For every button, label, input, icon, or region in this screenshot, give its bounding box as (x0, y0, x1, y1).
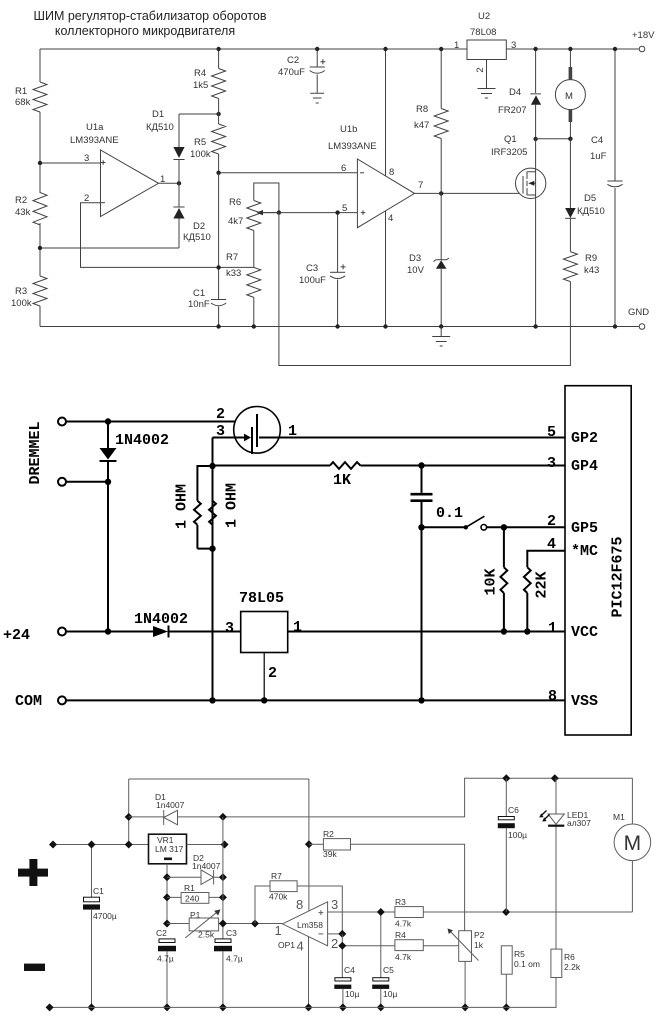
wire pin1 output (159, 182, 180, 184)
svg-text:КД510: КД510 (183, 232, 211, 243)
svg-text:C4: C4 (591, 135, 603, 146)
svg-text:78L08: 78L08 (470, 27, 496, 38)
svg-text:4.7µ: 4.7µ (157, 954, 174, 964)
svg-text:R3: R3 (15, 286, 27, 297)
svg-text:P2: P2 (474, 930, 485, 940)
diode D5 KD510 (569, 139, 571, 252)
regulator VR1 LM317 (149, 834, 187, 864)
resistor R3 100k (33, 276, 47, 306)
svg-text:LM393ANE: LM393ANE (328, 141, 377, 152)
wire bottom rail GND (40, 326, 639, 328)
svg-text:R7: R7 (271, 871, 282, 881)
op-amp OP1 Lm358 (282, 902, 327, 946)
wire input column up (128, 779, 130, 845)
MOSFET Q1 IRF3205 (516, 168, 546, 198)
svg-text:100µ: 100µ (508, 830, 527, 840)
svg-text:R4: R4 (395, 930, 406, 940)
wire drain to motor bottom (536, 138, 571, 140)
wire left column (39, 49, 41, 327)
resistor R2 39k (309, 843, 324, 845)
svg-text:1k: 1k (474, 940, 484, 950)
capacitor C3 4.7u (215, 939, 231, 943)
svg-text:Q1: Q1 (504, 134, 517, 145)
svg-text:КД510: КД510 (146, 122, 174, 133)
terminal DREMMEL A (58, 418, 66, 426)
resistor R3 4.7k (395, 907, 423, 918)
svg-text:10K: 10K (483, 568, 500, 595)
diode D4 FR207 (535, 49, 537, 139)
svg-text:4.7µ: 4.7µ (226, 954, 243, 964)
svg-text:1: 1 (454, 40, 459, 51)
diode D 1N4002 vertical (107, 422, 109, 632)
wire +24 row with diode 1N4002 (66, 631, 241, 633)
wire VR1 out (187, 844, 225, 846)
capacitor C4 10u (335, 978, 351, 981)
svg-text:2.2k: 2.2k (564, 962, 581, 972)
svg-text:100k: 100k (190, 149, 211, 160)
svg-text:4: 4 (388, 213, 393, 224)
resistor R9 k43 (563, 252, 577, 282)
svg-text:R6: R6 (229, 197, 241, 208)
svg-text:R1: R1 (15, 86, 27, 97)
svg-text:коллекторного микродвигателя: коллекторного микродвигателя (55, 24, 235, 38)
svg-text:M: M (565, 91, 573, 102)
svg-text:IRF3205: IRF3205 (491, 147, 527, 158)
resistor R1 240 (167, 896, 223, 898)
resistor 10K (503, 527, 505, 631)
capacitor 0.1 (421, 466, 423, 701)
wire bottom ground rail (50, 978, 556, 1008)
svg-text:R1: R1 (184, 883, 195, 893)
svg-text:1: 1 (548, 620, 557, 637)
svg-text:R4: R4 (194, 68, 206, 79)
wire D1 row to regulator output net (129, 778, 633, 817)
svg-text:0.1: 0.1 (436, 505, 463, 522)
resistor R6 2.2k (551, 949, 562, 977)
svg-text:D4: D4 (509, 87, 521, 98)
terminal +24 (58, 628, 66, 636)
potentiometer R6 4k7 (247, 201, 261, 231)
trimmer P2 1k (459, 931, 472, 962)
svg-text:2: 2 (331, 936, 338, 951)
op-amp U1b (357, 159, 414, 228)
svg-text:4.7k: 4.7k (395, 919, 412, 929)
wire pin8 to top rail (385, 49, 387, 176)
svg-text:0.1 om: 0.1 om (514, 959, 540, 969)
svg-text:1uF: 1uF (590, 151, 607, 162)
terminal GND (639, 324, 645, 330)
svg-text:D1: D1 (152, 109, 164, 120)
svg-text:4.7k: 4.7k (395, 952, 412, 962)
svg-text:10µ: 10µ (383, 989, 397, 999)
wire U2 pin2 + ground (486, 60, 488, 89)
svg-text:U1a: U1a (86, 122, 104, 133)
svg-text:R5: R5 (194, 137, 206, 148)
svg-text:1n4007: 1n4007 (192, 861, 221, 871)
svg-text:U2: U2 (478, 11, 490, 22)
svg-text:M1: M1 (613, 812, 625, 822)
svg-text:R3: R3 (395, 897, 406, 907)
svg-text:1K: 1K (333, 472, 351, 489)
wire VCC row (288, 631, 565, 633)
svg-text:470uF: 470uF (278, 67, 305, 78)
svg-text:2: 2 (475, 67, 486, 72)
svg-text:Lm358: Lm358 (297, 920, 323, 930)
svg-text:68k: 68k (15, 97, 31, 108)
svg-text:R9: R9 (585, 253, 597, 264)
svg-text:4700µ: 4700µ (93, 911, 117, 921)
wire dremmel top to mosfet source (66, 421, 257, 423)
wire pin2 row to R4 (342, 934, 395, 978)
wire R5 column down through C1 (218, 173, 220, 327)
capacitor C3 100uF (337, 213, 339, 327)
motor M (569, 49, 571, 139)
svg-text:C1: C1 (93, 886, 104, 896)
svg-text:78L05: 78L05 (239, 590, 284, 607)
wire GP4 row with resistor 1K (213, 465, 566, 467)
svg-text:3: 3 (84, 153, 89, 164)
wire pin5 row (258, 212, 358, 214)
svg-text:1 OHM: 1 OHM (224, 483, 241, 528)
svg-text:VCC: VCC (571, 624, 598, 641)
switch on GP5 (422, 526, 465, 528)
svg-text:3: 3 (331, 897, 338, 912)
wire top right row junctions (502, 774, 510, 782)
svg-text:D2: D2 (193, 221, 205, 232)
wire COM/VSS row (66, 699, 565, 701)
resistor R8 k47 (440, 49, 442, 193)
svg-text:39k: 39k (323, 849, 337, 859)
wire R9 bottom loop to R6 wiper (279, 213, 571, 366)
svg-text:2.5k: 2.5k (198, 930, 215, 940)
svg-text:2: 2 (268, 665, 277, 682)
svg-text:R2: R2 (323, 829, 334, 839)
svg-text:ал307: ал307 (567, 818, 591, 828)
MOSFET Q middle (234, 407, 281, 454)
resistor 1 OHM right (209, 501, 216, 525)
svg-text:1N4002: 1N4002 (134, 611, 188, 628)
resistor R7 k33 (253, 231, 255, 268)
svg-text:8: 8 (548, 688, 557, 705)
ground below D3 (432, 327, 450, 347)
svg-text:C2: C2 (156, 928, 167, 938)
svg-text:GP4: GP4 (571, 458, 598, 475)
LED1 al307 (555, 778, 557, 949)
svg-text:3: 3 (225, 620, 234, 637)
wire D1 top to R4/R5 junction (179, 113, 219, 115)
svg-text:C3: C3 (226, 928, 237, 938)
svg-text:10nF: 10nF (188, 299, 210, 310)
svg-text:VSS: VSS (571, 693, 598, 710)
terminal DREMMEL B (58, 478, 66, 486)
svg-text:R5: R5 (514, 949, 525, 959)
wire drain to GP2 (259, 437, 565, 439)
svg-text:U1b: U1b (340, 124, 357, 135)
svg-text:2: 2 (547, 513, 556, 530)
svg-text:OP1: OP1 (278, 940, 295, 950)
resistor R4 4.7k (395, 940, 423, 951)
svg-text:3: 3 (547, 455, 556, 472)
svg-text:R2: R2 (15, 195, 27, 206)
wire pin4 to bottom rail (385, 211, 387, 327)
capacitor C1 10nF (211, 299, 226, 301)
resistor R5 100k (218, 114, 220, 173)
diode D2 1n4007 (167, 876, 223, 878)
svg-text:C6: C6 (508, 805, 519, 815)
svg-text:C4: C4 (344, 965, 355, 975)
wiper arrow R6 (262, 212, 279, 214)
wire pin7 output to gate (415, 192, 524, 194)
svg-text:100k: 100k (11, 298, 32, 309)
svg-text:8: 8 (296, 897, 303, 912)
svg-text:8: 8 (389, 167, 394, 178)
svg-text:3: 3 (511, 40, 516, 51)
wire R5 junction to U1b pin6 (219, 172, 358, 174)
svg-text:COM: COM (15, 693, 42, 710)
motor M1 (631, 778, 633, 912)
svg-text:R6: R6 (564, 952, 575, 962)
svg-text:k43: k43 (584, 265, 599, 276)
capacitor C2 4.7u (159, 939, 175, 943)
node R2-R3 junction wire to D2 (40, 247, 179, 249)
wire pin4 column (308, 937, 310, 1008)
svg-text:10µ: 10µ (345, 989, 359, 999)
plus terminal symbol (29, 859, 37, 886)
regulator U2 78L08 (467, 40, 506, 60)
svg-text:GP5: GP5 (571, 520, 598, 537)
wire output column x223 (222, 817, 224, 939)
svg-text:+24: +24 (3, 627, 30, 644)
resistor R2 43k (33, 193, 47, 225)
svg-text:GP2: GP2 (571, 430, 598, 447)
svg-text:LM 317: LM 317 (155, 844, 184, 854)
svg-text:1: 1 (275, 923, 282, 938)
ground under C2 (310, 93, 324, 103)
zener D3 10V (440, 193, 442, 326)
diode D2 KD510 (178, 183, 180, 248)
wire MC row (527, 551, 565, 568)
wire gate column down (212, 438, 214, 701)
svg-text:+18V: +18V (632, 30, 655, 41)
minus terminal symbol (24, 964, 45, 971)
svg-text:R8: R8 (416, 104, 428, 115)
capacitor C4 1uF (614, 49, 616, 327)
trimmer P1 2.5k (167, 923, 282, 925)
capacitor C6 100u (505, 778, 507, 912)
svg-text:1: 1 (293, 619, 302, 636)
svg-text:1 OHM: 1 OHM (174, 484, 191, 529)
svg-text:k47: k47 (414, 120, 429, 131)
wire dremmel bottom stub (66, 481, 108, 483)
wire VR1 adj column (166, 864, 168, 924)
capacitor C2 470uF (316, 49, 318, 93)
svg-text:3: 3 (216, 423, 225, 440)
resistor R7 470k feedback (255, 886, 270, 924)
svg-text:R7: R7 (226, 252, 238, 263)
svg-text:6: 6 (341, 163, 346, 174)
resistor R4 1k5 (218, 49, 220, 114)
svg-text:D5: D5 (584, 193, 596, 204)
svg-text:1N4002: 1N4002 (115, 432, 169, 449)
wire minus input junctions (328, 933, 343, 935)
svg-text:*MC: *MC (571, 543, 598, 560)
svg-text:4: 4 (547, 536, 556, 553)
diode D1 1n4007 (163, 810, 165, 825)
IC PIC12F675 (565, 386, 631, 735)
wire pin8 column (308, 779, 310, 911)
diode D1 KD510 (178, 114, 180, 183)
svg-text:k33: k33 (226, 268, 241, 279)
svg-text:GND: GND (628, 307, 649, 318)
svg-text:43k: 43k (15, 207, 31, 218)
svg-text:1n4007: 1n4007 (156, 800, 185, 810)
svg-text:240: 240 (185, 894, 199, 904)
svg-text:DREMMEL: DREMMEL (27, 421, 44, 484)
capacitor C1 4700u (91, 845, 93, 1008)
svg-text:2: 2 (216, 406, 225, 423)
svg-text:C2: C2 (287, 55, 299, 66)
svg-text:C1: C1 (193, 288, 205, 299)
terminal COM (58, 696, 66, 704)
wire pin2 feedback (81, 203, 254, 268)
svg-text:22K: 22K (534, 571, 551, 598)
resistor R1 68k (33, 82, 47, 112)
svg-text:P1: P1 (190, 910, 201, 920)
terminal +18V (639, 46, 645, 52)
wire main input row (53, 844, 225, 846)
svg-text:4: 4 (297, 939, 304, 954)
wire top rail +18V (40, 48, 639, 50)
svg-text:КД510: КД510 (577, 206, 605, 217)
svg-text:FR207: FR207 (498, 105, 527, 116)
wire 78L05 pin2 (263, 653, 265, 701)
svg-text:10V: 10V (407, 265, 425, 276)
svg-text:7: 7 (418, 180, 423, 191)
svg-text:5: 5 (547, 424, 556, 441)
svg-text:C3: C3 (306, 263, 318, 274)
node pin3 wire (40, 162, 101, 164)
svg-text:PIC12F675: PIC12F675 (610, 536, 627, 617)
resistor 1 OHM left (197, 466, 212, 549)
resistor R5 0.1om (501, 946, 512, 974)
svg-text:ШИМ регулятор-стабилизатор обо: ШИМ регулятор-стабилизатор оборотов (34, 9, 267, 23)
op-amp U1a (101, 150, 159, 217)
svg-text:470k: 470k (269, 892, 288, 902)
wire top supply row (129, 778, 309, 780)
svg-text:100uF: 100uF (299, 275, 326, 286)
svg-text:C5: C5 (383, 965, 394, 975)
svg-text:1k5: 1k5 (193, 80, 208, 91)
capacitor C5 10u (380, 912, 382, 978)
svg-text:M: M (624, 832, 642, 855)
svg-text:LM393ANE: LM393ANE (70, 135, 119, 146)
svg-text:D3: D3 (409, 253, 421, 264)
wire pin3 row (328, 911, 395, 913)
svg-text:4k7: 4k7 (228, 216, 243, 227)
resistor 22K (524, 567, 531, 631)
regulator 78L05 (241, 612, 288, 653)
svg-text:5: 5 (342, 203, 347, 214)
